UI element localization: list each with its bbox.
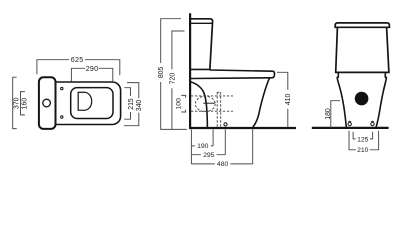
svg-text:290: 290 — [86, 65, 98, 73]
svg-text:190: 190 — [197, 143, 209, 150]
svg-text:210: 210 — [357, 147, 369, 154]
svg-text:410: 410 — [285, 93, 292, 105]
svg-text:480: 480 — [217, 161, 229, 168]
svg-text:805: 805 — [158, 66, 165, 78]
svg-text:720: 720 — [169, 73, 176, 85]
svg-text:295: 295 — [203, 152, 215, 159]
svg-text:180: 180 — [325, 108, 332, 120]
svg-text:100: 100 — [176, 98, 183, 110]
svg-text:160: 160 — [22, 98, 29, 110]
svg-text:215: 215 — [128, 98, 135, 110]
svg-text:340: 340 — [136, 100, 143, 112]
svg-text:125: 125 — [357, 136, 369, 143]
svg-text:370: 370 — [13, 97, 20, 109]
svg-text:625: 625 — [71, 56, 84, 64]
